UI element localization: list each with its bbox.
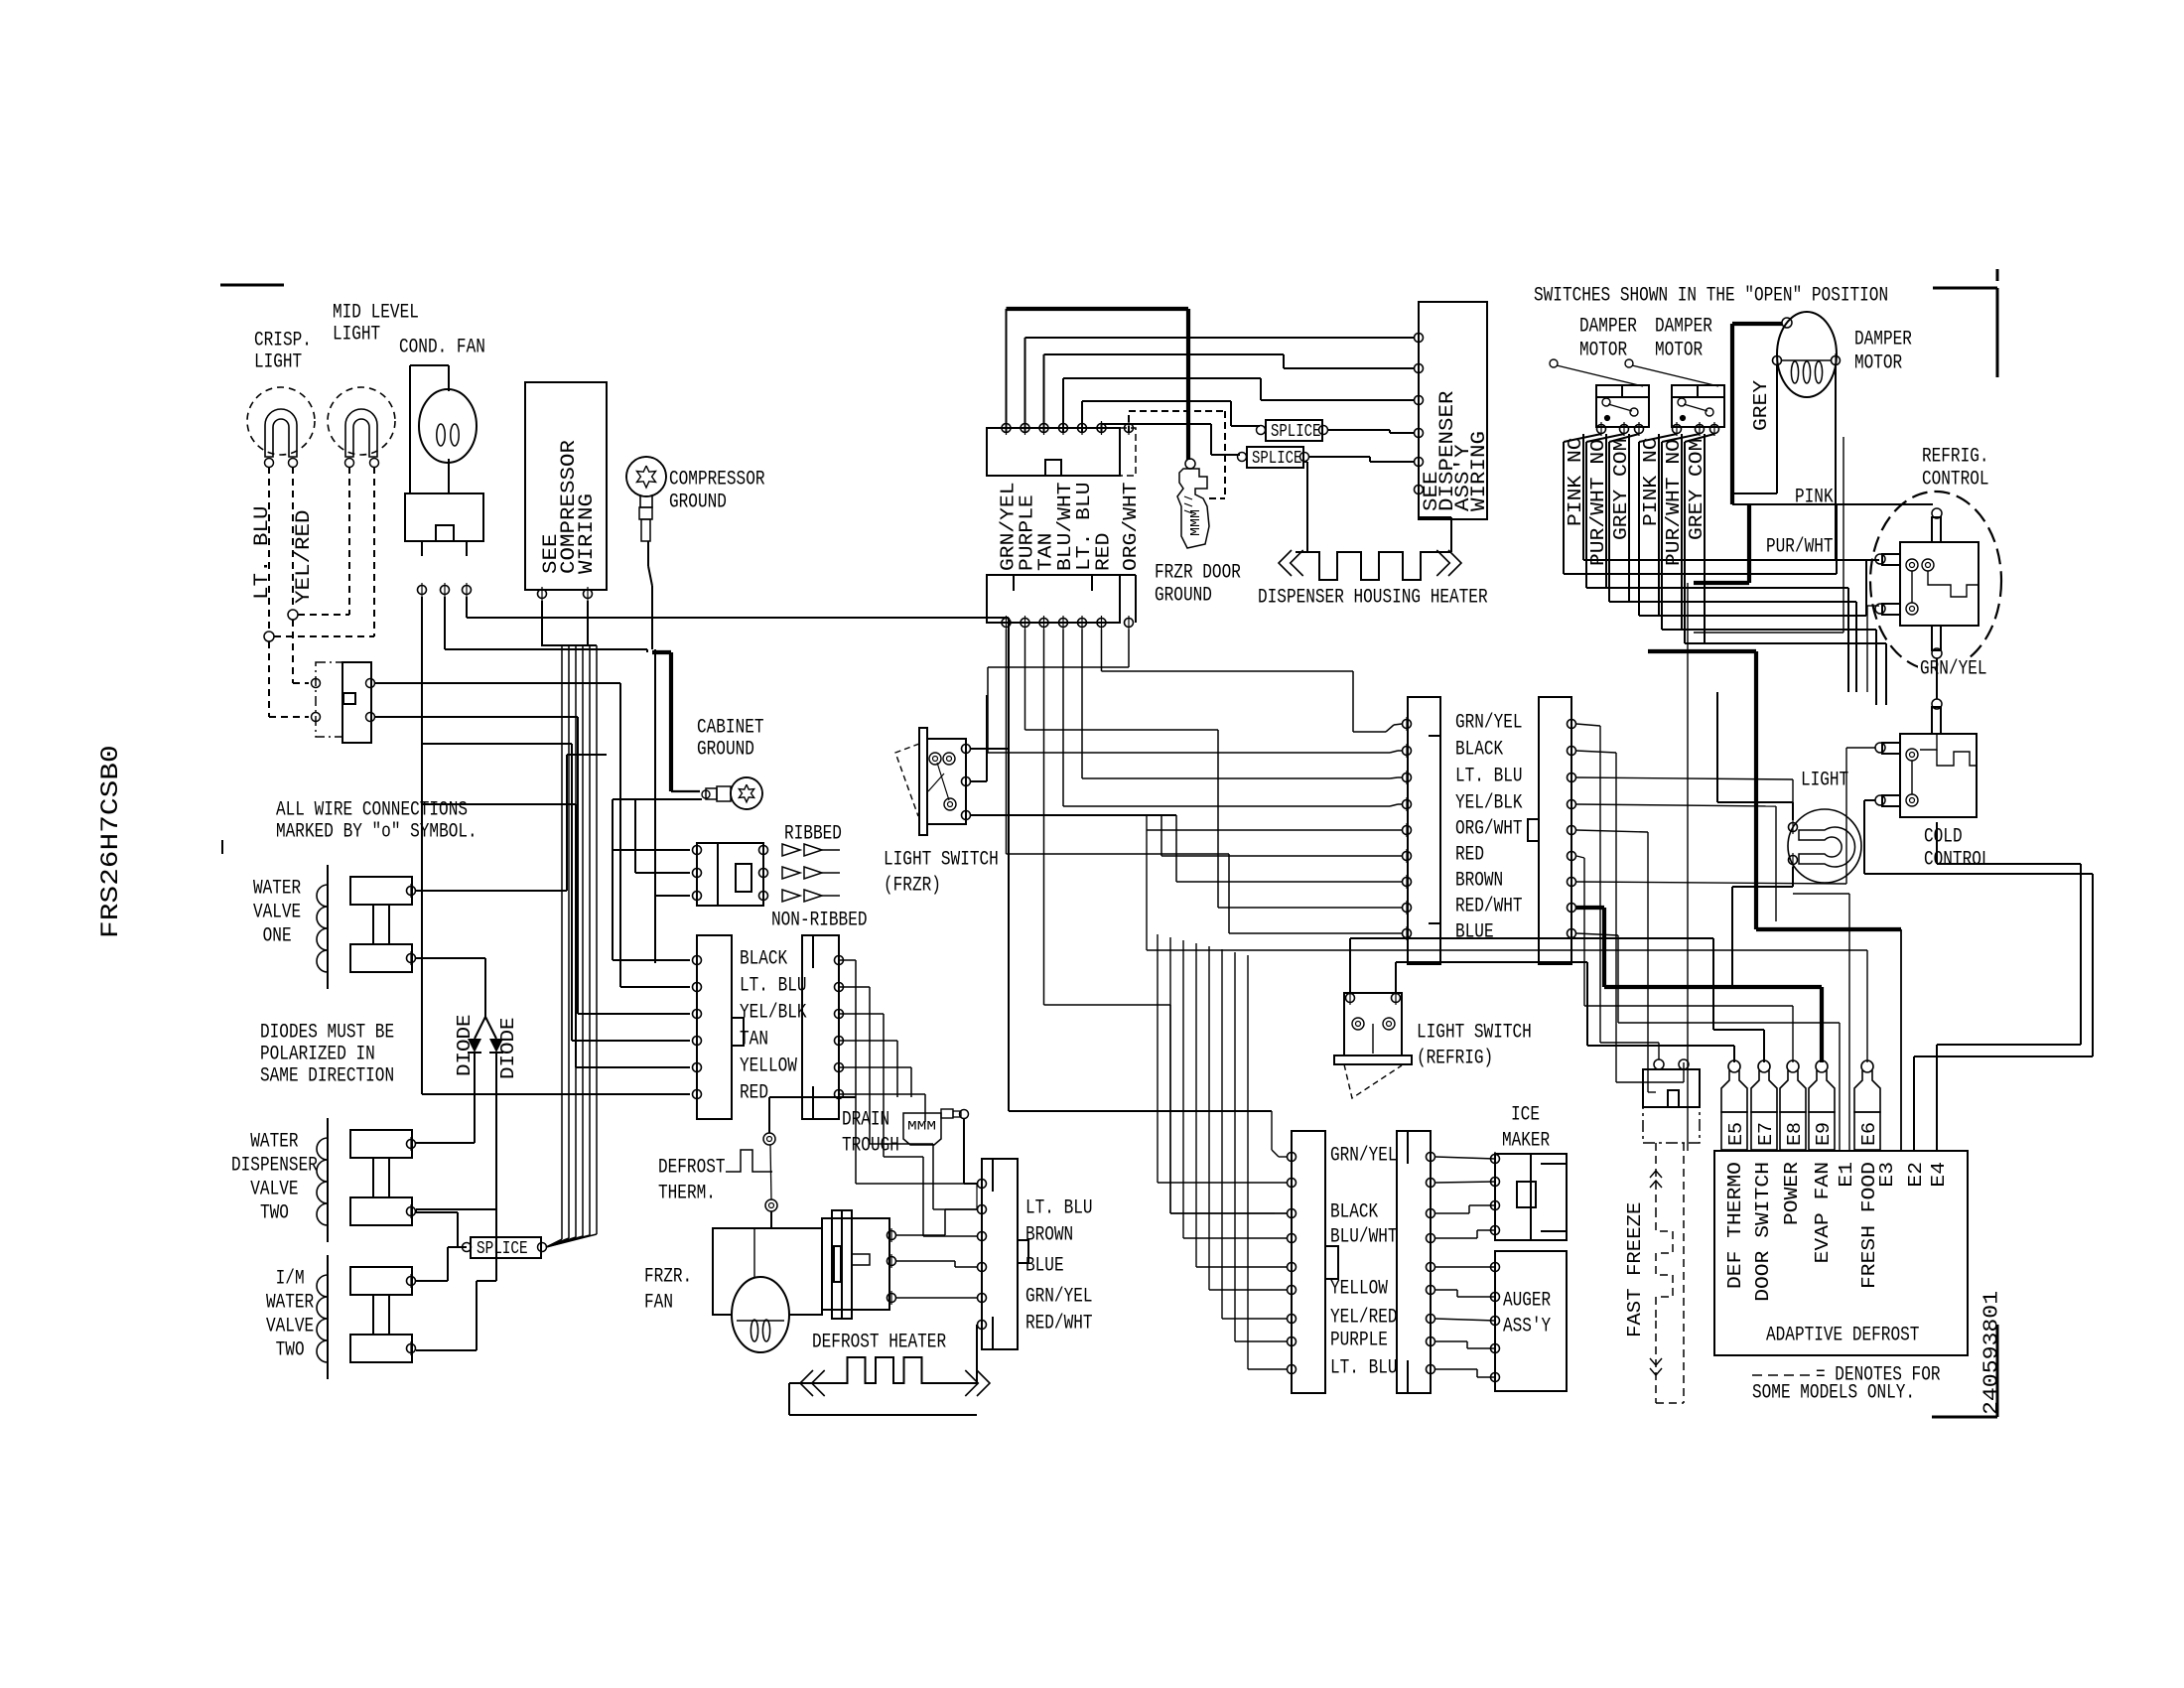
wire midR redwht thick <box>1576 908 1822 1062</box>
box SEE DISPENSER ASSY WIRING <box>1419 302 1487 519</box>
terminal midL-2 <box>1403 744 1412 758</box>
svg-text:E3: E3 <box>1876 1162 1898 1188</box>
svg-text:E7: E7 <box>1755 1122 1777 1146</box>
svg-text:BROWN: BROWN <box>1455 870 1503 893</box>
label GRN/YEL right <box>1918 658 1989 681</box>
label SEE COMPRESSOR WIRING <box>540 440 599 574</box>
wires sw2 channel runs <box>1639 602 1886 643</box>
label NON-RIBBED <box>771 910 868 932</box>
wire pin6 route <box>1102 630 1403 732</box>
dispenser housing heater element <box>1279 550 1461 580</box>
wire midR blue <box>1576 933 1840 1151</box>
terminal ctr-5 <box>978 1291 987 1305</box>
box SEE COMPRESSOR WIRING <box>525 382 607 590</box>
wire splice fanout <box>546 645 597 1247</box>
svg-text:E5: E5 <box>1725 1122 1747 1146</box>
refctl contacts <box>1906 559 1934 615</box>
label DEFROST THERM. <box>658 1157 726 1205</box>
terminal midL-6 <box>1403 849 1412 863</box>
label MMM clip <box>1188 509 1204 536</box>
label COND. FAN <box>399 337 485 359</box>
terminal bimetal-1 <box>887 1228 896 1242</box>
label MID LEVEL LIGHT <box>333 302 419 347</box>
terminal lsf-3 <box>962 808 971 822</box>
label ICE MAKER <box>1502 1104 1550 1153</box>
svg-text:E8: E8 <box>1784 1122 1806 1146</box>
wire coldctl bottom run <box>1937 822 2081 1151</box>
svg-text:GROUND: GROUND <box>669 492 727 514</box>
wire condfan-2 down <box>445 597 647 649</box>
note DENOTES <box>1752 1364 1941 1405</box>
svg-text:E9: E9 <box>1813 1122 1835 1146</box>
terminal ribbed-r1 <box>759 843 768 857</box>
svg-text:E4: E4 <box>1928 1162 1950 1188</box>
svg-text:DISPENSER HOUSING HEATER: DISPENSER HOUSING HEATER <box>1258 587 1488 610</box>
svg-text:BLACK: BLACK <box>1330 1201 1378 1224</box>
wire dashed crisp-right <box>292 467 294 610</box>
terminal lsr-2 <box>1392 991 1401 1005</box>
terminal midL-5 <box>1403 823 1412 837</box>
damper switch 2 <box>1672 385 1724 427</box>
label ORG/WHT mid <box>1455 818 1523 841</box>
terminal ctr-2 <box>978 1202 987 1216</box>
splice box 1 <box>1266 420 1322 441</box>
label GRN/YEL mid <box>1455 712 1523 735</box>
terminal damper-l <box>1773 353 1782 367</box>
wire pairR staircase <box>839 960 977 1236</box>
label SPLICE left <box>477 1239 528 1259</box>
label FRS26H7CSB0 <box>96 745 125 938</box>
svg-text:YELLOW: YELLOW <box>740 1055 797 1078</box>
terminal pairR-6 <box>835 1087 844 1101</box>
terminal lsf-1 <box>962 742 971 756</box>
svg-text:SAME DIRECTION: SAME DIRECTION <box>260 1065 394 1088</box>
svg-text:THERM.: THERM. <box>658 1183 716 1205</box>
wire left bundle a <box>422 744 576 1067</box>
svg-text:MMM: MMM <box>1188 509 1204 536</box>
wire drain lead <box>964 1119 977 1184</box>
wire pin7 route <box>988 630 1402 753</box>
terminal lowL-6 <box>1288 1283 1297 1297</box>
note DIODES <box>260 1022 394 1088</box>
svg-text:LIGHT: LIGHT <box>254 352 302 374</box>
wire condfan-3 down <box>467 597 1009 618</box>
label DAMPER MOTOR 1 <box>1579 316 1637 362</box>
label CABINET GROUND <box>697 717 764 762</box>
lsr internals <box>1372 1024 1374 1054</box>
spade terminal E7 <box>1751 1060 1777 1150</box>
svg-text:TWO: TWO <box>231 1202 289 1225</box>
svg-text:BLACK: BLACK <box>1455 739 1503 762</box>
wire purwht drop <box>1867 606 1879 692</box>
terminal damper-r <box>1832 353 1841 367</box>
wire pin3 up <box>1044 354 1415 433</box>
svg-text:SPLICE: SPLICE <box>477 1239 528 1259</box>
terminal switch-left-1 <box>312 679 321 688</box>
wire pin1 route <box>1007 630 1403 933</box>
border corner bottom-right <box>1932 1325 1997 1417</box>
label E1 col <box>1836 1162 1857 1188</box>
connector low-left <box>1292 1131 1338 1393</box>
coldctl internals <box>1912 734 1977 794</box>
label YEL/RED <box>293 510 316 605</box>
wire pin1 up thick <box>1007 309 1189 460</box>
svg-text:CRISP.: CRISP. <box>254 330 312 352</box>
svg-text:BLACK: BLACK <box>740 948 787 971</box>
terminal topL-7 <box>1125 616 1134 630</box>
wire refctl bottom <box>1936 658 1938 699</box>
svg-text:E1: E1 <box>1836 1162 1857 1188</box>
label E3 col <box>1876 1162 1898 1188</box>
terminal lowL-4 <box>1288 1231 1297 1245</box>
terminal pairR-1 <box>835 953 844 967</box>
wire midR yelblk <box>1576 804 1776 921</box>
svg-text:PURPLE: PURPLE <box>1330 1330 1388 1352</box>
terminal lowL-7 <box>1288 1312 1297 1326</box>
splice box left <box>471 1237 541 1258</box>
label PUR/WHT <box>1766 536 1834 559</box>
terminal midR-5 <box>1568 823 1576 837</box>
svg-text:MOTOR: MOTOR <box>1854 352 1902 375</box>
svg-text:ONE: ONE <box>253 925 292 948</box>
light switch frzr body <box>895 728 966 835</box>
connector mid-left <box>1408 697 1440 964</box>
terminal topU-1 <box>1002 421 1011 435</box>
terminal midL-8 <box>1403 901 1412 914</box>
terminal crisp-1 <box>265 459 274 468</box>
terminal pairL-1 <box>693 953 702 967</box>
label YELLOW <box>740 1055 797 1078</box>
terminal bimetal-3 <box>887 1291 896 1305</box>
terminal topL-6 <box>1097 616 1106 630</box>
label DRAIN TROUGH <box>842 1109 899 1158</box>
label COLD CONTROL <box>1924 826 1991 872</box>
terminal ribbed-l3 <box>693 889 702 903</box>
terminal coldctl-top <box>1932 699 1942 709</box>
svg-text:FAST FREEZE: FAST FREEZE <box>1624 1202 1646 1337</box>
terminal pairL-5 <box>693 1060 702 1074</box>
svg-text:YEL/BLK: YEL/BLK <box>1455 792 1523 815</box>
svg-text:ALL WIRE CONNECTIONS: ALL WIRE CONNECTIONS <box>276 799 468 822</box>
label 240593801 <box>1981 1291 2004 1415</box>
spade terminal E8 <box>1780 1060 1806 1150</box>
label LT. BLU low <box>1330 1357 1398 1380</box>
svg-text:LIGHT: LIGHT <box>1801 770 1848 792</box>
label RED <box>740 1082 768 1105</box>
terminal auger-4 <box>1491 1341 1500 1355</box>
svg-text:SPLICE: SPLICE <box>1271 422 1320 442</box>
wires damper sw1 channels <box>1564 434 1639 602</box>
wire light leads <box>1717 692 1793 985</box>
cond fan connector <box>405 493 483 556</box>
svg-text:VALVE: VALVE <box>253 902 301 924</box>
svg-text:PUR/WHT: PUR/WHT <box>1766 536 1834 559</box>
terminal auger-3 <box>1491 1314 1500 1328</box>
svg-text:GRN/YEL: GRN/YEL <box>1025 1286 1093 1309</box>
terminal compwire-1 <box>538 587 547 601</box>
terminal pairL-2 <box>693 980 702 994</box>
terminal dtherm-2 <box>765 1199 777 1211</box>
svg-text:MOTOR: MOTOR <box>1655 340 1703 362</box>
label I/M WATER VALVE TWO <box>266 1268 314 1362</box>
terminal midR-7 <box>1568 875 1576 889</box>
label GREY <box>1750 379 1772 431</box>
wire dashed to switch-2 <box>269 641 309 717</box>
terminal condfan-1 <box>418 583 427 597</box>
label LIGHT <box>1801 770 1848 792</box>
wire heater left lead <box>1296 462 1307 552</box>
lever lsf <box>928 763 949 800</box>
terminal refctl-bot <box>1932 648 1942 658</box>
svg-text:BLUE: BLUE <box>1025 1255 1064 1278</box>
terminal switch-left-2 <box>312 713 321 722</box>
terminal dsw1-3 <box>1635 422 1644 436</box>
terminal lowL-3 <box>1288 1206 1297 1220</box>
leader damper2 <box>1625 359 1718 386</box>
svg-text:WATER: WATER <box>253 878 301 901</box>
svg-text:LIGHT SWITCH: LIGHT SWITCH <box>884 849 999 872</box>
wire coldctl left run <box>1864 800 2093 1151</box>
terminal lowR-7 <box>1427 1312 1435 1326</box>
wire pin7 dashed <box>1129 411 1225 498</box>
terminal icemaker-1 <box>1491 1152 1500 1166</box>
spade terminal E6 <box>1854 1060 1880 1150</box>
contact lsf-a <box>929 753 941 765</box>
svg-text:I/M: I/M <box>266 1268 305 1291</box>
label AUGER ASSY <box>1503 1290 1551 1338</box>
terminal splice-l-2 <box>538 1243 547 1252</box>
wire midL row7 feed <box>1176 815 1402 882</box>
terminal topL-4 <box>1059 616 1068 630</box>
terminal coldctl-left2 <box>1875 795 1885 805</box>
label RIBBED <box>784 823 842 846</box>
terminal ctr-6 <box>978 1318 987 1332</box>
label CRISP. LIGHT <box>254 330 312 374</box>
svg-text:ORG/WHT: ORG/WHT <box>1455 818 1523 841</box>
svg-text:BLU/WHT: BLU/WHT <box>1330 1226 1398 1249</box>
cond fan frame <box>410 365 449 493</box>
svg-text:RED: RED <box>740 1082 768 1105</box>
frzr door ground clip <box>1177 469 1209 548</box>
wire spade feeds <box>0 0 1 1</box>
terminal ff-2 <box>1679 1059 1689 1069</box>
defrost heater element <box>800 1357 990 1396</box>
terminal pairR-4 <box>835 1034 844 1048</box>
light switch refrig body <box>1334 993 1412 1098</box>
wire dashed to switch-1 <box>293 620 309 683</box>
svg-text:YEL/RED: YEL/RED <box>293 510 316 605</box>
wire im valve top lead <box>416 1247 463 1281</box>
label BLACK <box>740 948 787 971</box>
terminal light-2 <box>1789 853 1798 867</box>
terminal lowL-9 <box>1288 1362 1297 1376</box>
svg-text:FAN: FAN <box>644 1292 673 1315</box>
svg-text:POWER: POWER <box>1781 1162 1803 1225</box>
terminal refctl-top <box>1932 508 1942 518</box>
note ALL WIRE CONNECTIONS <box>276 799 478 844</box>
wire lsf-1 <box>971 618 1009 749</box>
wires channel drops <box>1837 504 1886 705</box>
connector pair-right <box>802 935 839 1119</box>
label ADAPTIVE DEFROST <box>1766 1325 1919 1347</box>
terminal topU-6 <box>1097 421 1106 435</box>
terminal splice2-l <box>1238 453 1247 462</box>
wire pin2 route <box>1025 630 1403 908</box>
terminal ctr-4 <box>978 1260 987 1274</box>
label EVAP FAN col <box>1812 1162 1834 1263</box>
label PURPLE vertical <box>1016 494 1037 571</box>
diode D2 <box>489 1039 503 1053</box>
wire midR orgwht <box>1576 830 1656 1092</box>
contact lsr-b <box>1383 1018 1395 1030</box>
terminal lowR-1 <box>1427 1150 1435 1164</box>
svg-text:VALVE: VALVE <box>231 1179 299 1201</box>
terminal pairL-6 <box>693 1087 702 1101</box>
terminal topU-3 <box>1039 421 1048 435</box>
fast freeze arrows <box>1650 1171 1662 1375</box>
wire ctr feeds right <box>976 1184 978 1209</box>
terminal condfan-3 <box>463 583 472 597</box>
terminal ribbed-l2 <box>693 866 702 880</box>
damper motor <box>1777 312 1837 397</box>
wire im valve bottom lead <box>416 1209 496 1350</box>
note SWITCHES SHOWN <box>1534 285 1888 308</box>
svg-text:COND. FAN: COND. FAN <box>399 337 485 359</box>
label GRN/YEL ctr <box>1025 1286 1093 1309</box>
label LT. BLU mid <box>1455 766 1523 788</box>
svg-text:GRN/YEL: GRN/YEL <box>1330 1145 1398 1168</box>
label E4 col <box>1928 1162 1950 1188</box>
label YEL/BLK <box>740 1002 807 1025</box>
svg-text:PINK: PINK <box>1795 487 1834 509</box>
label DAMPER MOTOR 2 <box>1655 316 1712 362</box>
spade terminal E5 <box>1721 1060 1747 1150</box>
terminal clip <box>1185 459 1195 469</box>
wire pin6 up <box>1102 424 1241 455</box>
svg-text:LT. BLU: LT. BLU <box>251 506 274 601</box>
svg-text:CONTROL: CONTROL <box>1922 469 1989 492</box>
terminal icemaker-4 <box>1491 1223 1500 1237</box>
terminal icemaker-2 <box>1491 1175 1500 1189</box>
label BLUE ctr <box>1025 1255 1064 1278</box>
terminal dispenser-2 <box>1415 361 1424 375</box>
terminal splice-l-1 <box>463 1243 472 1252</box>
svg-text:FRZR.: FRZR. <box>644 1266 692 1289</box>
label BLACK low <box>1330 1201 1378 1224</box>
svg-text:SPLICE: SPLICE <box>1252 449 1301 469</box>
label PINK NC 1 <box>1565 437 1586 526</box>
wire bimetal leads <box>896 1209 977 1298</box>
terminal lowL-8 <box>1288 1335 1297 1348</box>
terminal auger-5 <box>1491 1370 1500 1384</box>
terminal lowR-2 <box>1427 1176 1435 1190</box>
svg-text:COMPRESSOR: COMPRESSOR <box>669 469 765 492</box>
diode D1 <box>468 1039 481 1053</box>
terminal icemaker-3 <box>1491 1198 1500 1212</box>
label DIODE right <box>497 1018 519 1080</box>
label RED mid <box>1455 844 1484 867</box>
wire pair left feeds <box>422 960 690 1094</box>
wire valve1 bottom lead <box>416 958 496 1039</box>
svg-text:DEFROST: DEFROST <box>658 1157 726 1180</box>
adaptive defrost box <box>1714 1151 1968 1355</box>
wire midR grn/yel <box>1147 724 1867 1062</box>
label GRN/YEL low <box>1330 1145 1398 1168</box>
terminal dispenser-4 <box>1415 426 1424 440</box>
terminal midL-1 <box>1403 717 1412 731</box>
label BROWN mid <box>1455 870 1503 893</box>
wire splice1 right <box>1328 430 1414 433</box>
svg-text:ASS'Y: ASS'Y <box>1503 1316 1551 1338</box>
stray tick left <box>221 840 223 854</box>
svg-text:DAMPER: DAMPER <box>1579 316 1637 339</box>
wire midR brown <box>1576 748 1875 884</box>
lamp mid level light <box>328 387 395 457</box>
wire pin5 route <box>1082 630 1402 778</box>
splice box 2 <box>1247 447 1303 468</box>
terminal pairL-3 <box>693 1007 702 1021</box>
terminal compwire-2 <box>584 587 593 601</box>
contact lsf-c <box>944 798 956 810</box>
svg-text:DAMPER: DAMPER <box>1854 329 1912 352</box>
label PUR/WHT NO 1 <box>1587 439 1609 566</box>
terminal dispenser-1 <box>1415 331 1424 345</box>
motor cond fan <box>419 389 477 463</box>
label LT. BLU <box>251 506 274 601</box>
terminal pairR-5 <box>835 1060 844 1074</box>
svg-text:GROUND: GROUND <box>697 739 754 762</box>
terminal refctl-left2 <box>1875 604 1885 614</box>
terminal coldctl-left1 <box>1875 743 1885 753</box>
wire pin2 up <box>1025 338 1415 433</box>
svg-text:WIRING: WIRING <box>1468 431 1491 511</box>
label LT. BLU ctr <box>1025 1197 1093 1220</box>
coldctl contacts <box>1906 749 1918 806</box>
svg-text:(FRZR): (FRZR) <box>884 875 941 898</box>
svg-text:240593801: 240593801 <box>1981 1291 2004 1415</box>
terminal drain <box>960 1110 969 1119</box>
wire bundle to lower connector <box>1158 934 1287 1369</box>
svg-text:BLUE: BLUE <box>1455 921 1494 944</box>
wire diode2 down <box>416 1053 496 1212</box>
label E2 col <box>1905 1162 1927 1188</box>
terminal dsw2-2 <box>1696 422 1705 436</box>
svg-text:RED: RED <box>1455 844 1484 867</box>
svg-text:LT. BLU: LT. BLU <box>1330 1357 1398 1380</box>
svg-text:LT. BLU: LT. BLU <box>1025 1197 1093 1220</box>
wires damper sw2 channels <box>1639 434 1714 643</box>
terminal ribbed-r2 <box>759 866 768 880</box>
svg-text:DOOR SWITCH: DOOR SWITCH <box>1752 1162 1774 1302</box>
svg-text:DISPENSER: DISPENSER <box>231 1155 318 1178</box>
wire frzr fan loop <box>713 1228 822 1315</box>
svg-text:MOTOR: MOTOR <box>1579 340 1627 362</box>
label TAN vertical <box>1034 533 1056 571</box>
label FRZR. FAN <box>644 1266 692 1315</box>
terminal topL-1 <box>1002 616 1011 630</box>
terminal auger-1 <box>1491 1260 1500 1274</box>
label RED/WHT mid <box>1455 896 1523 918</box>
label PURPLE low <box>1330 1330 1388 1352</box>
switch body <box>342 662 371 743</box>
svg-text:DEF THERMO: DEF THERMO <box>1724 1162 1746 1289</box>
wire valve1 top lead <box>416 755 607 891</box>
terminal crisp-2 <box>289 459 298 468</box>
wire pin3 route <box>1044 630 1288 1213</box>
terminal lowR-3 <box>1427 1206 1435 1220</box>
terminal midR-3 <box>1568 771 1576 784</box>
svg-text:DRAIN: DRAIN <box>842 1109 889 1132</box>
